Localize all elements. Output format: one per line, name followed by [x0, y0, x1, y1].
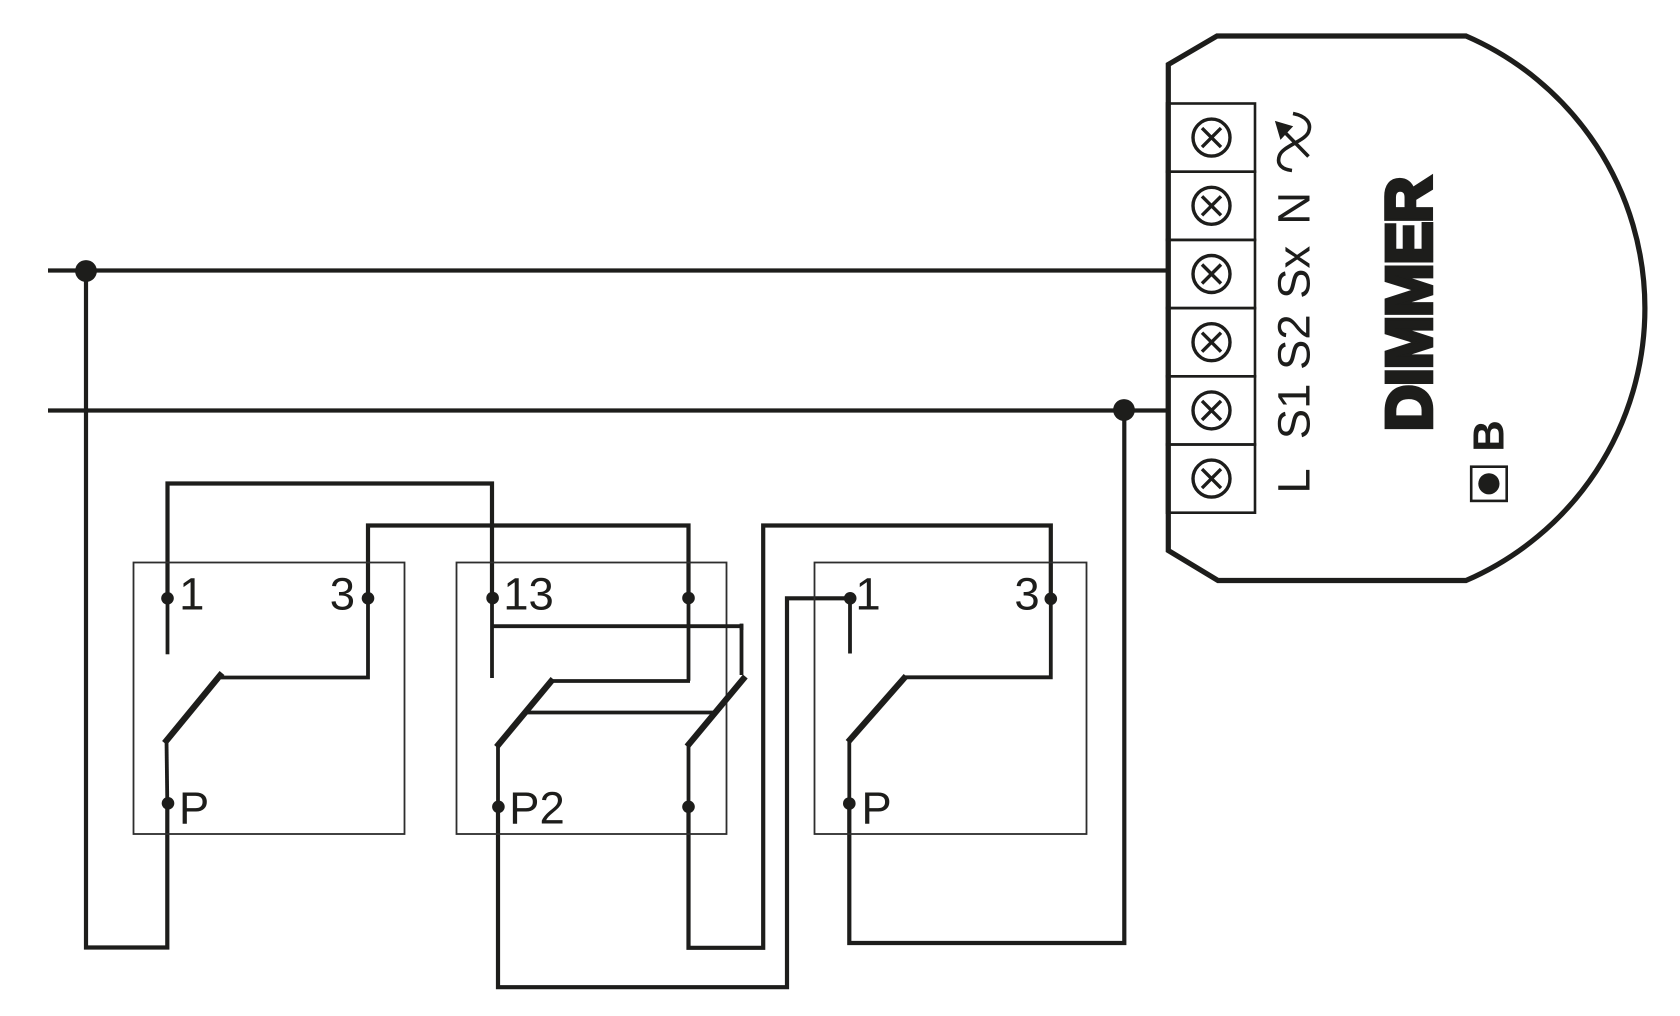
wire junction J1 to switch S1 P: [86, 271, 167, 948]
node S3 terminal 3: [1045, 593, 1058, 606]
svg-text:1: 1: [179, 568, 204, 619]
svg-text:L: L: [1269, 468, 1320, 493]
wire switch S1 terminal 1 to switch S2 terminal 13: [168, 484, 493, 599]
dimming symbol (adjustable sine): [1276, 114, 1309, 171]
switch S1 terminal 3 riser: [221, 598, 368, 678]
screw terminal ~: [1193, 119, 1230, 156]
svg-text:DIMMER: DIMMER: [1373, 178, 1445, 432]
node S2 terminal P2: [492, 801, 505, 814]
svg-text:P: P: [179, 783, 209, 834]
wire S1 line: [48, 408, 1167, 412]
svg-text:3: 3: [1014, 568, 1039, 619]
dimmer module U1 body: [1168, 36, 1645, 581]
node S1 terminal 3: [362, 592, 375, 605]
switch S3 terminal 1 stub: [848, 598, 852, 653]
screw terminal N: [1193, 187, 1230, 224]
terminal block: [1167, 104, 1255, 513]
screw terminal S1: [1193, 392, 1230, 429]
screw terminal L: [1193, 460, 1230, 497]
wire switch S1 terminal 3 to switch S2 right terminal: [368, 526, 689, 599]
switch S2 crossover link 13 to right lever: [492, 626, 742, 675]
wire Sx line: [48, 268, 1167, 272]
svg-text:P: P: [861, 783, 891, 834]
switch S2 terminal 13 stub: [490, 597, 494, 678]
screw terminal Sx: [1193, 256, 1230, 293]
switch S1 box: [134, 563, 405, 835]
switch S1 terminal 1 stub: [166, 598, 170, 654]
wire junction J2 to switch S3 P: [849, 411, 1124, 944]
svg-text:S1: S1: [1269, 384, 1320, 440]
switch S2 box: [457, 563, 727, 835]
svg-text:Sx: Sx: [1269, 246, 1320, 299]
node S2 terminal 13: [486, 592, 499, 605]
node junction J2: [1113, 399, 1135, 421]
switch S2 right lever: [687, 677, 745, 807]
svg-text:3: 3: [330, 568, 355, 619]
switch S2 lever coupler: [526, 711, 718, 715]
screw terminal S2: [1193, 324, 1230, 361]
node S2 right terminal: [682, 592, 695, 605]
svg-text:13: 13: [503, 568, 554, 619]
node S3 terminal P: [843, 797, 856, 810]
node S3 terminal 1: [844, 592, 857, 605]
button B: [1471, 467, 1507, 501]
node junction J1: [75, 260, 97, 282]
svg-text:P2: P2: [509, 783, 565, 834]
switch S3 box: [815, 563, 1087, 835]
svg-text:B: B: [1465, 420, 1514, 452]
wire switch S2 terminal P2 to switch S3 terminal 1: [498, 598, 850, 987]
node S1 terminal P: [162, 797, 175, 810]
switch S3 lever: [848, 676, 906, 803]
switch S2 right terminal stub: [687, 597, 691, 680]
svg-text:S2: S2: [1269, 314, 1320, 370]
svg-text:N: N: [1269, 192, 1320, 225]
switch S2 left lever: [497, 679, 691, 807]
node S1 terminal 1: [161, 592, 174, 605]
switch S1 lever: [165, 673, 223, 803]
node S2 lower right terminal: [682, 801, 695, 814]
svg-text:1: 1: [855, 568, 880, 619]
switch S3 terminal 3 riser: [905, 599, 1051, 678]
wire switch S2 lower right terminal to switch S3 terminal 3: [689, 526, 1051, 948]
